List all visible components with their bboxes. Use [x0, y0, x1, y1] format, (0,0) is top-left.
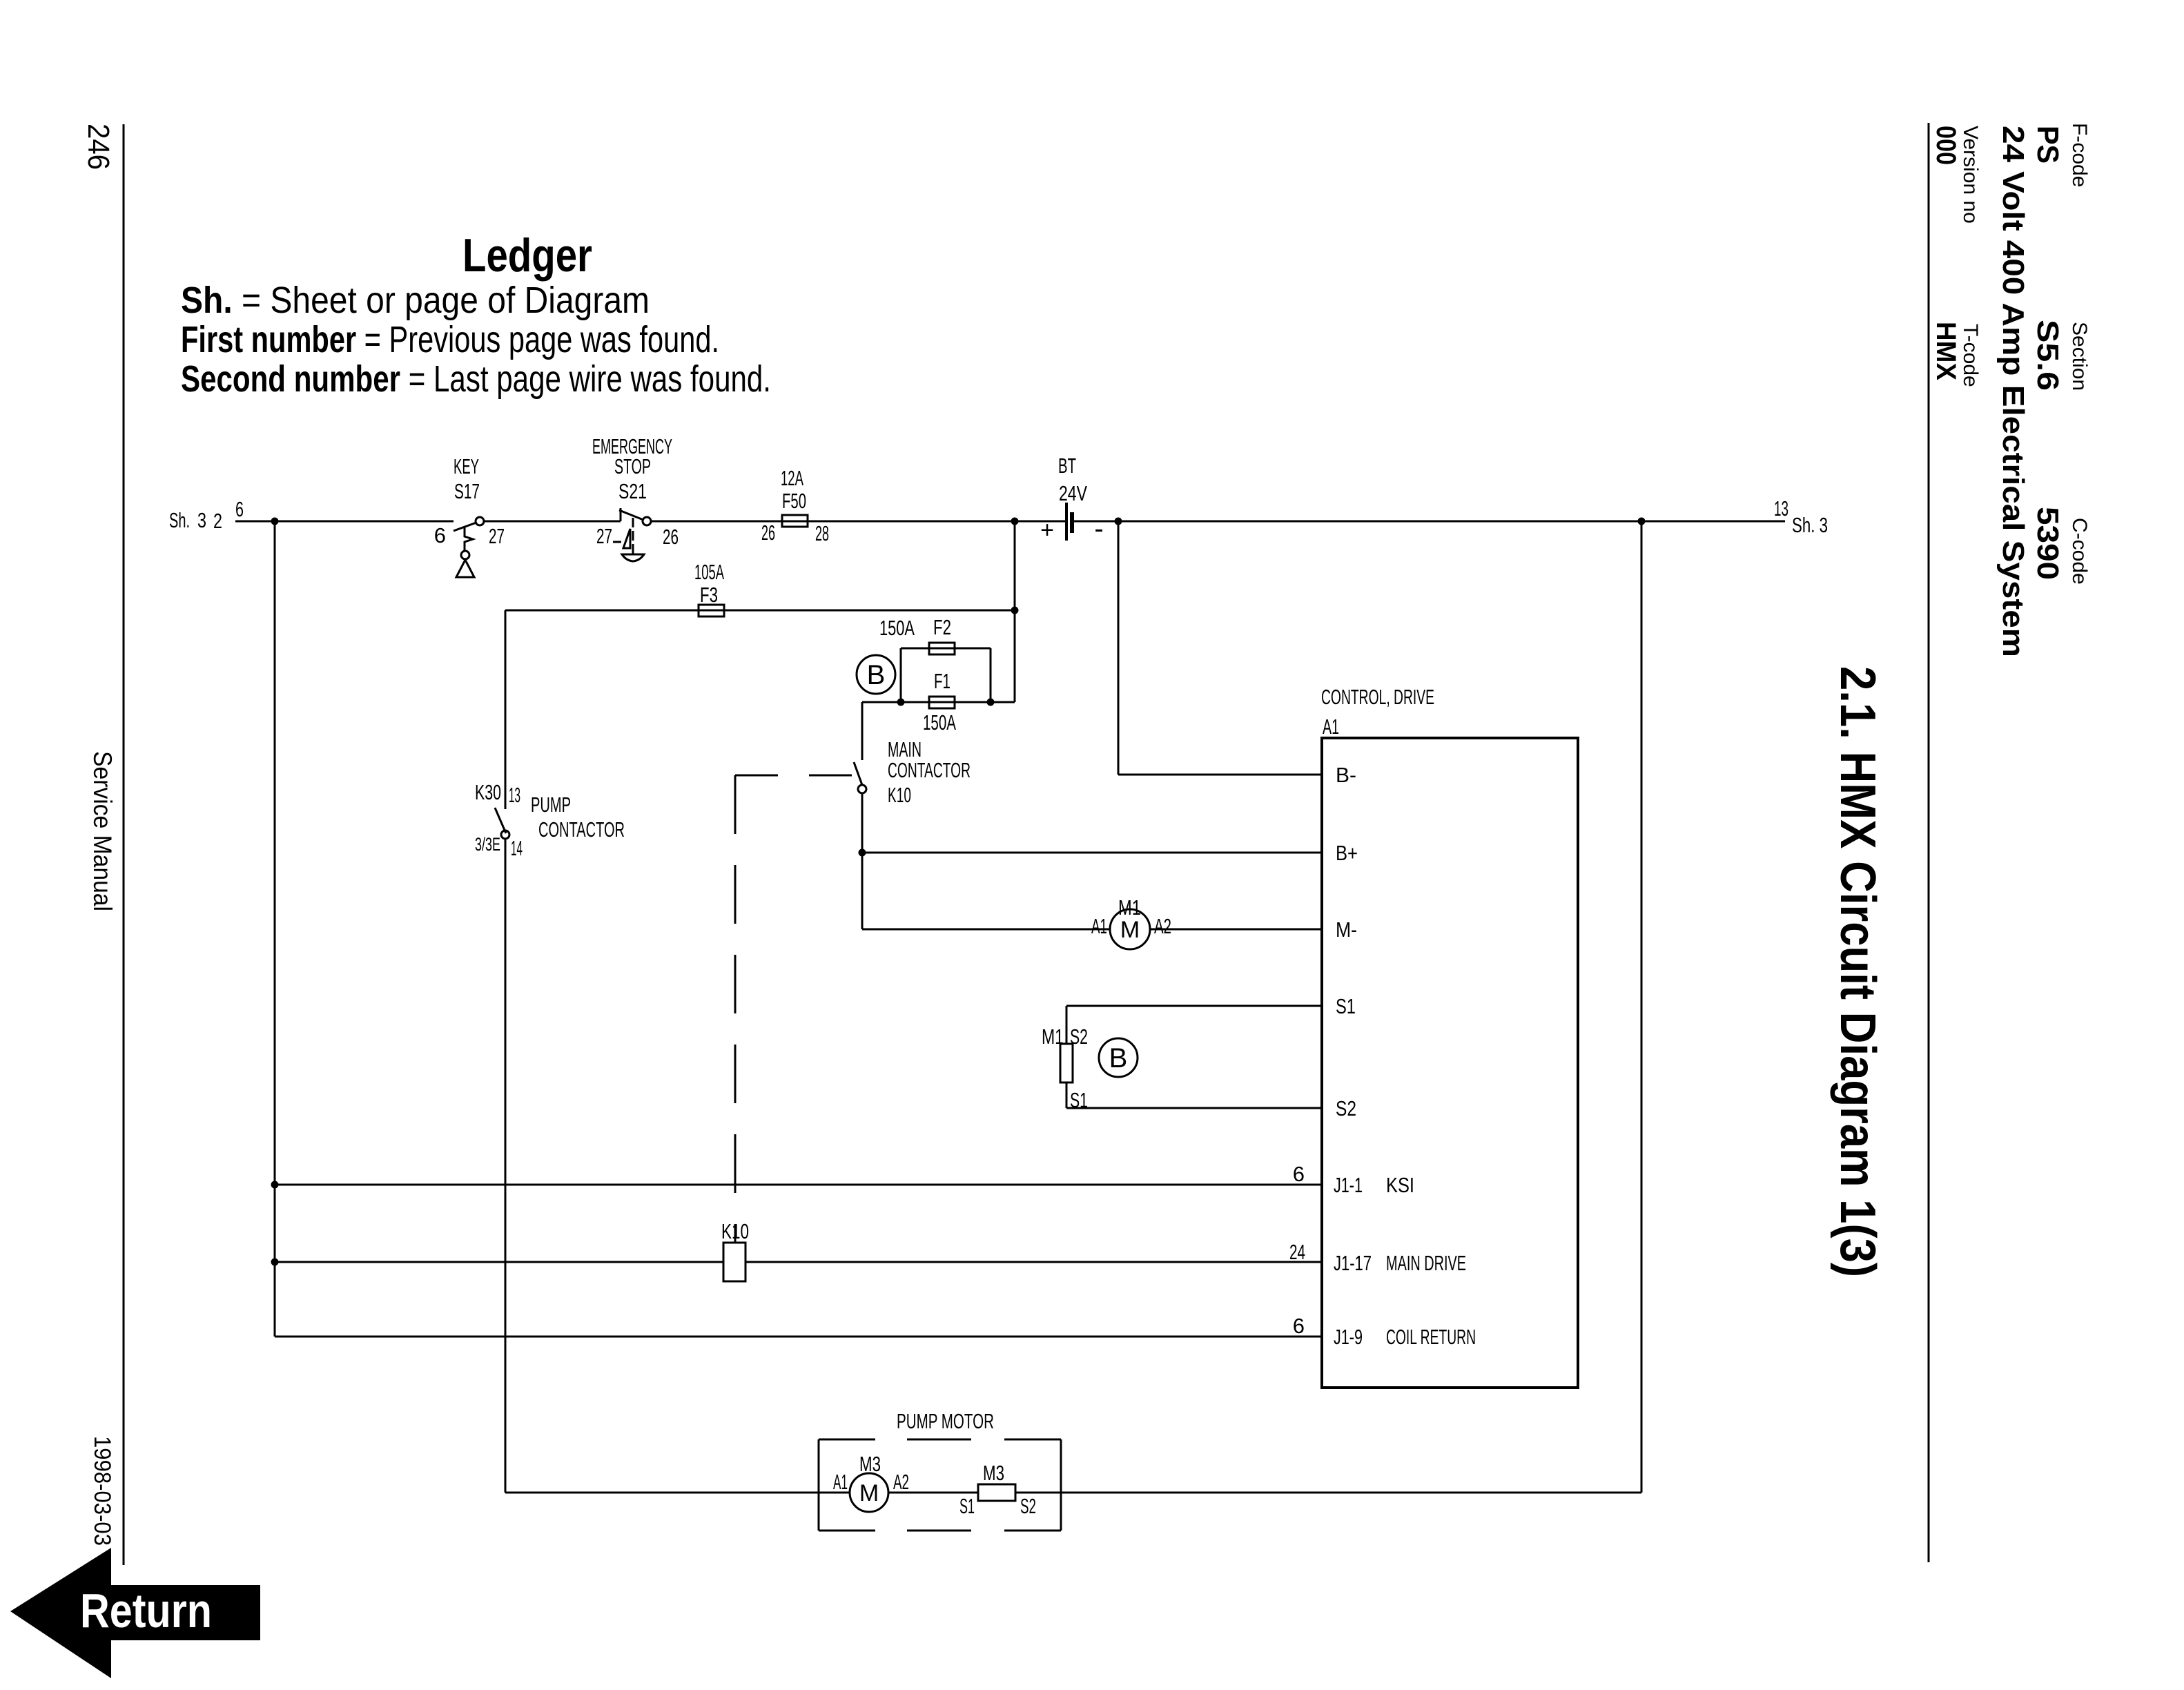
svg-text:F-code: F-code — [2068, 123, 2091, 187]
svg-text:B-: B- — [1336, 763, 1356, 787]
svg-text:A1: A1 — [1091, 914, 1107, 938]
svg-text:M3: M3 — [983, 1461, 1004, 1485]
svg-text:Sh. 3: Sh. 3 — [1792, 513, 1828, 537]
svg-text:J1-1: J1-1 — [1334, 1173, 1363, 1197]
svg-text:PUMP MOTOR: PUMP MOTOR — [897, 1409, 994, 1433]
svg-text:KEY: KEY — [454, 454, 479, 478]
svg-text:150A: 150A — [879, 616, 915, 640]
svg-text:M: M — [859, 1480, 879, 1506]
svg-text:+: + — [1040, 517, 1054, 543]
svg-text:6: 6 — [434, 523, 446, 547]
svg-text:COIL RETURN: COIL RETURN — [1386, 1325, 1476, 1349]
svg-text:Ledger: Ledger — [462, 229, 592, 282]
svg-text:24: 24 — [1289, 1240, 1305, 1264]
svg-text:6: 6 — [1293, 1314, 1305, 1338]
svg-text:6: 6 — [1293, 1162, 1305, 1186]
svg-text:26: 26 — [663, 525, 679, 549]
svg-text:Sh.: Sh. — [169, 508, 190, 532]
svg-text:M: M — [1120, 917, 1140, 943]
svg-text:First number = Previous page w: First number = Previous page was found. — [181, 319, 719, 360]
svg-text:PUMP: PUMP — [531, 793, 571, 817]
svg-text:M1: M1 — [1118, 895, 1141, 920]
svg-text:S1: S1 — [1336, 994, 1356, 1018]
svg-text:24 Volt 400 Amp Electrical Sys: 24 Volt 400 Amp Electrical System — [1996, 126, 2030, 657]
svg-text:CONTROL, DRIVE: CONTROL, DRIVE — [1321, 685, 1434, 709]
svg-text:T-code: T-code — [1959, 324, 1982, 387]
svg-text:A1: A1 — [833, 1470, 848, 1494]
svg-text:Second number = Last page wire: Second number = Last page wire was found… — [181, 358, 771, 400]
svg-text:2.1. HMX Circuit Diagram 1(3): 2.1. HMX Circuit Diagram 1(3) — [1830, 666, 1885, 1277]
svg-text:S1: S1 — [959, 1494, 975, 1518]
svg-text:M1: M1 — [1042, 1024, 1064, 1049]
svg-text:PS: PS — [2031, 126, 2065, 164]
svg-text:CONTACTOR: CONTACTOR — [888, 758, 971, 782]
svg-text:F1: F1 — [934, 669, 950, 693]
svg-text:S2: S2 — [1020, 1494, 1036, 1518]
svg-text:C-code: C-code — [2068, 518, 2091, 585]
svg-text:Return: Return — [80, 1584, 212, 1638]
svg-text:KSI: KSI — [1386, 1173, 1414, 1197]
svg-text:6: 6 — [235, 497, 244, 521]
svg-text:K10: K10 — [721, 1219, 749, 1243]
svg-text:24V: 24V — [1059, 481, 1087, 505]
svg-text:5390: 5390 — [2031, 507, 2065, 580]
svg-text:S17: S17 — [454, 479, 480, 503]
svg-text:MAIN DRIVE: MAIN DRIVE — [1386, 1251, 1466, 1275]
svg-text:-: - — [1094, 514, 1103, 544]
svg-text:2: 2 — [213, 509, 222, 533]
svg-text:M-: M- — [1336, 917, 1357, 942]
svg-text:M3: M3 — [859, 1452, 881, 1476]
svg-text:Service Manual: Service Manual — [88, 751, 117, 911]
svg-text:000: 000 — [1931, 126, 1961, 165]
svg-text:105A: 105A — [694, 560, 724, 584]
svg-text:J1-17: J1-17 — [1334, 1251, 1372, 1275]
svg-text:S2: S2 — [1070, 1024, 1088, 1049]
svg-text:F50: F50 — [782, 489, 806, 513]
svg-text:A1: A1 — [1323, 715, 1339, 739]
svg-text:A2: A2 — [893, 1470, 909, 1494]
svg-text:3/3E: 3/3E — [475, 834, 500, 855]
svg-text:Section: Section — [2068, 322, 2091, 391]
svg-text:F2: F2 — [933, 615, 951, 639]
svg-text:A2: A2 — [1154, 914, 1171, 938]
svg-text:150A: 150A — [923, 710, 956, 735]
svg-text:12A: 12A — [781, 466, 803, 490]
svg-text:HMX: HMX — [1931, 322, 1961, 380]
svg-text:1998-03-03: 1998-03-03 — [89, 1436, 115, 1546]
svg-text:S1: S1 — [1070, 1088, 1088, 1112]
svg-text:246: 246 — [81, 124, 115, 170]
svg-text:13: 13 — [509, 783, 520, 807]
svg-text:26: 26 — [761, 521, 775, 545]
svg-text:Version no: Version no — [1959, 126, 1982, 224]
svg-text:3: 3 — [197, 508, 206, 532]
svg-text:13: 13 — [1774, 496, 1788, 521]
svg-text:27: 27 — [489, 524, 505, 548]
svg-text:S5.6: S5.6 — [2031, 320, 2065, 391]
svg-text:Sh. = Sheet or page of Diagram: Sh. = Sheet or page of Diagram — [181, 280, 650, 321]
svg-text:BT: BT — [1058, 454, 1076, 478]
svg-text:S2: S2 — [1336, 1096, 1356, 1120]
svg-text:B+: B+ — [1336, 841, 1358, 865]
svg-text:B: B — [1109, 1043, 1128, 1074]
svg-text:27: 27 — [596, 524, 612, 548]
svg-text:14: 14 — [511, 836, 523, 860]
svg-text:J1-9: J1-9 — [1334, 1325, 1363, 1349]
svg-text:28: 28 — [815, 521, 829, 545]
svg-text:B: B — [867, 660, 886, 690]
svg-text:S21: S21 — [618, 479, 647, 503]
svg-text:STOP: STOP — [614, 454, 651, 478]
svg-text:K30: K30 — [475, 780, 501, 804]
svg-text:K10: K10 — [888, 783, 911, 807]
svg-text:F3: F3 — [700, 583, 718, 607]
svg-text:CONTACTOR: CONTACTOR — [538, 817, 625, 842]
